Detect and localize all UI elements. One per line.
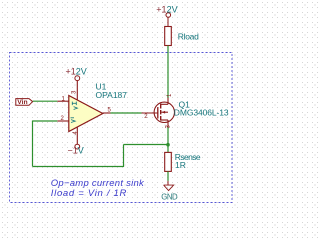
note text bbox=[51, 178, 145, 199]
junction bbox=[166, 143, 170, 147]
wire junction to Rsense bbox=[167, 145, 169, 153]
pin 2 (- in) bbox=[57, 120, 69, 122]
power -1V (below op-amp) bbox=[68, 144, 84, 155]
svg-text:−1V: −1V bbox=[68, 146, 84, 156]
wire feedback: bottom run bbox=[33, 166, 124, 168]
svg-text:Vin: Vin bbox=[17, 99, 27, 106]
svg-text:DMG3406L-13: DMG3406L-13 bbox=[174, 108, 229, 118]
op-amp U1 bbox=[57, 81, 111, 145]
svg-text:Rload: Rload bbox=[178, 32, 199, 42]
svg-text:OPA187: OPA187 bbox=[96, 90, 128, 100]
+ mark bbox=[72, 102, 77, 110]
note box (dashed blue rectangle) bbox=[10, 53, 233, 203]
transistor Q1 (N-MOSFET) bbox=[141, 98, 174, 128]
wire feedback: down left side bbox=[32, 121, 34, 167]
resistor Rsense bbox=[165, 152, 172, 171]
svg-text:1R: 1R bbox=[175, 160, 186, 170]
pin 3 (V+) bbox=[76, 81, 78, 100]
- mark bbox=[71, 118, 76, 123]
wire Vin to pin 1 bbox=[33, 100, 58, 102]
wire feedback: right to junction bbox=[124, 144, 169, 146]
wire Rsense to GND bbox=[167, 171, 169, 181]
wire feedback: pin2 left bbox=[33, 120, 58, 122]
wire Q1 source down to junction bbox=[167, 128, 169, 145]
svg-text:Iload = Vin / 1R: Iload = Vin / 1R bbox=[51, 188, 127, 199]
power +12V (top right) bbox=[156, 4, 177, 26]
global label Vin bbox=[16, 99, 33, 107]
pin 5 (out) bbox=[103, 112, 111, 114]
power +12V (above op-amp) bbox=[66, 67, 87, 81]
wire Rload to Q1 drain bbox=[167, 46, 169, 99]
svg-text:+12V: +12V bbox=[66, 67, 87, 77]
svg-text:2: 2 bbox=[144, 114, 148, 120]
svg-text:4: 4 bbox=[73, 131, 79, 135]
wire op-amp output to gate bbox=[111, 112, 142, 114]
ground GND bbox=[161, 185, 178, 201]
pin 1 (+ in) bbox=[57, 100, 69, 102]
svg-text:3: 3 bbox=[72, 90, 78, 94]
pin 4 (V-) bbox=[76, 127, 78, 144]
wire feedback: up step bbox=[123, 145, 125, 168]
svg-text:GND: GND bbox=[161, 192, 178, 201]
svg-text:+12V: +12V bbox=[156, 4, 177, 14]
resistor Rload bbox=[165, 27, 172, 46]
